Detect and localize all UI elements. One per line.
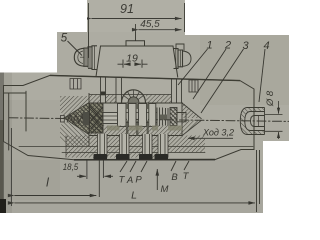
- bore top line: [89, 102, 182, 104]
- dimension Ход 3,2: [188, 137, 233, 139]
- centerline (bore axis, dash-dot): [9, 118, 289, 122]
- ext line left (l and L): [10, 128, 12, 206]
- white cutout bottom-right: [263, 141, 289, 213]
- hatch: right cone wedges: [182, 102, 201, 119]
- black scan corner bottom-left: [0, 199, 6, 213]
- right cap rings: [174, 49, 183, 69]
- dimension 18,5: [77, 175, 86, 177]
- spool spring washer: [103, 113, 118, 124]
- bore bottom line: [89, 135, 182, 137]
- scan shadow left edge: [0, 72, 4, 213]
- white cutout top-right: [185, 0, 289, 35]
- spool end nut: [170, 108, 177, 126]
- mounting lug left: [70, 79, 81, 90]
- port labels: [120, 161, 189, 190]
- cone spring coils: [67, 115, 84, 124]
- port dark blobs: [94, 154, 169, 160]
- tower dark plug: [101, 92, 106, 96]
- hatch: left cone: [64, 103, 89, 135]
- towers: [101, 77, 182, 103]
- hatch: lower body band: [66, 136, 205, 158]
- port slots: [98, 134, 169, 158]
- hatch: bottom band inside bore wall: [89, 126, 182, 136]
- body inner vertical at left end: [8, 93, 10, 150]
- dimension Ø8: [265, 101, 283, 139]
- actuator top plate rect: [126, 41, 145, 46]
- body inner vertical left: [25, 91, 27, 131]
- dimension l: [14, 195, 96, 197]
- M arrow: [156, 169, 158, 190]
- white cutout left: [0, 32, 57, 73]
- left bell dome: [74, 48, 84, 66]
- body lower plate line: [62, 152, 205, 154]
- svg-text:5: 5: [61, 33, 68, 45]
- left bell cap rings: [84, 46, 97, 70]
- white cutout top-left: [0, 0, 87, 32]
- body bottom edge emphasis: [74, 159, 215, 161]
- paper tone patches: [87, 0, 185, 32]
- body inner step line left: [4, 92, 27, 94]
- ext lines under port 1: [86, 161, 88, 180]
- svg-text:Ход 3,2: Ход 3,2: [202, 128, 234, 138]
- dark tint under bore bottom: [107, 126, 182, 131]
- right cap top knob: [176, 44, 184, 51]
- body inner bottom line: [19, 146, 253, 148]
- bore right cone: [182, 103, 202, 136]
- bore left wall: [88, 93, 90, 146]
- spool gap cavities: [126, 104, 149, 136]
- spool lands: [118, 104, 156, 127]
- spool neck lines: [126, 113, 157, 123]
- mounting lug right: [189, 80, 198, 92]
- apex plug: [61, 116, 65, 123]
- ext lines right for L: [256, 150, 258, 212]
- hatch wedge above cone: [60, 96, 89, 117]
- hatch: top band: [89, 95, 101, 104]
- actuator trapezoid block: [96, 46, 178, 78]
- washer stack: [157, 108, 168, 127]
- detent dome: [122, 90, 146, 103]
- paper vignette: [0, 160, 289, 213]
- right cap dome: [183, 51, 192, 66]
- hatch: spring block: [90, 103, 104, 133]
- svg-text:19: 19: [126, 53, 138, 65]
- cone spring seat: [83, 112, 89, 125]
- body top edge emphasis: [50, 75, 240, 80]
- valve body outline: [4, 75, 255, 159]
- hatch left low wedge: [60, 120, 89, 147]
- dimension L: [14, 202, 255, 204]
